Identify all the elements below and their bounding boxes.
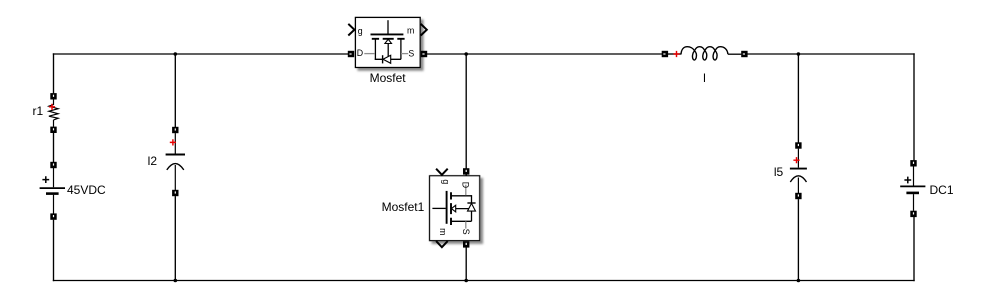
wire l2 bottom lead (174, 165, 176, 190)
capacitor l2 arc plate (167, 164, 184, 170)
mosfet block Mosfet1 rotated (430, 168, 480, 247)
svg-text:Mosfet: Mosfet (370, 71, 407, 85)
wire l2 top lead (174, 133, 176, 154)
inductor l polarity plus (673, 51, 679, 57)
wire top rail inductor to right (747, 53, 914, 55)
capacitor l5 port bottom (795, 193, 801, 199)
battery 45VDC short plate (46, 192, 59, 195)
wire mosfet1 branch top (465, 54, 467, 176)
inductor l port right (741, 51, 747, 57)
svg-text:r1: r1 (33, 104, 44, 118)
wire l2 branch top (174, 54, 176, 127)
capacitor l2 top plate (166, 154, 185, 156)
resistor r1 port bottom (50, 127, 56, 133)
svg-text:g: g (358, 26, 363, 36)
svg-text:l5: l5 (774, 165, 784, 179)
svg-text:g: g (441, 179, 451, 184)
capacitor l2 port top (172, 127, 178, 133)
capacitor l5 port top (795, 142, 801, 148)
junction node l2 top (174, 52, 178, 56)
battery DC1 plus sign (904, 177, 911, 184)
junction node l5 top (797, 52, 801, 56)
wire DC1 bottom lead (913, 194, 915, 211)
wire bottom rail (53, 280, 915, 282)
svg-text:m: m (438, 228, 448, 235)
wire top rail mosfet S to inductor (427, 53, 663, 55)
battery DC1 long plate (900, 185, 925, 187)
wire left column bottom (53, 220, 55, 282)
svg-text:D: D (461, 182, 471, 188)
wire DC1 top lead (913, 166, 915, 185)
svg-text:S: S (461, 229, 471, 235)
junction node l5 bottom (797, 279, 801, 283)
wire r1 to battery (53, 133, 55, 162)
wire r1 top lead (53, 99, 55, 105)
wire r1 bottom lead (53, 120, 55, 127)
capacitor l5 polarity plus (793, 157, 799, 163)
capacitor l5 arc plate (790, 176, 806, 182)
junction node mosfet1 bottom (464, 279, 468, 283)
battery 45VDC long plate (40, 187, 65, 189)
resistor r1 zigzag (49, 105, 58, 120)
battery DC1 short plate (906, 192, 919, 195)
mosfet block Mosfet (348, 17, 427, 67)
wire l5 bottom lead (797, 178, 799, 194)
battery 45VDC port top (50, 162, 56, 168)
wire left column top (53, 53, 55, 93)
wire battery bottom lead (53, 195, 55, 214)
capacitor l2 port bottom (172, 190, 178, 196)
svg-text:S: S (408, 48, 414, 58)
resistor r1 port top (50, 93, 56, 99)
inductor l port left (662, 51, 668, 57)
battery 45VDC port bottom (50, 213, 56, 219)
svg-text:Mosfet1: Mosfet1 (382, 200, 425, 214)
inductor l coil (681, 47, 728, 60)
wire l2 branch bottom (174, 196, 176, 280)
junction node mosfet1 top (464, 52, 468, 56)
wire top rail left (53, 53, 348, 55)
battery DC1 port top (910, 160, 916, 166)
wire right column bottom (913, 217, 915, 281)
wire l5 branch top (797, 54, 799, 143)
capacitor l2 polarity plus (170, 139, 176, 145)
svg-text:l2: l2 (148, 154, 158, 168)
battery 45VDC plus sign (42, 176, 49, 183)
wire l5 top lead (797, 149, 799, 168)
inductor l right tail (728, 53, 742, 55)
svg-text:m: m (407, 26, 414, 36)
svg-text:45VDC: 45VDC (67, 183, 106, 197)
svg-text:D: D (357, 48, 363, 58)
wire right column top (913, 53, 915, 160)
svg-text:l: l (703, 71, 706, 85)
wire l5 branch bottom (797, 199, 799, 280)
battery DC1 port bottom (910, 211, 916, 217)
svg-text:DC1: DC1 (930, 183, 954, 197)
junction node l2 bottom (174, 279, 178, 283)
wire mosfet1 branch bottom (465, 241, 467, 280)
wire inductor stub (668, 53, 682, 55)
capacitor l5 top plate (790, 168, 807, 170)
wire battery top lead (53, 168, 55, 187)
resistor r1 polarity plus (49, 104, 55, 110)
